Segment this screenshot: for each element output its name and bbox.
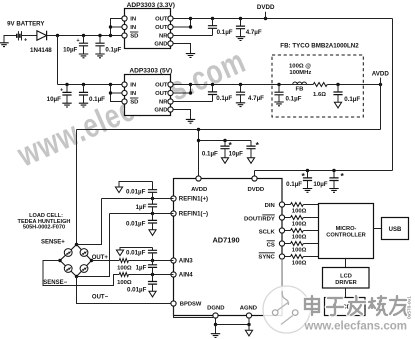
wire U3 to R5 (SCLK) (285, 230, 291, 232)
junction bridge left vertex (58, 259, 61, 262)
capacitor C2 0.1µF (95, 43, 104, 46)
svg-text:AVDD: AVDD (191, 187, 207, 193)
wire diode to U1 SD / input rail (47, 35, 122, 37)
svg-text:SYNC: SYNC (258, 254, 275, 260)
ground (C12, analog) (247, 158, 254, 164)
wire C20 bottom (152, 284, 154, 291)
capacitor C7 0.1µF (NR) (208, 92, 217, 95)
wire input to 5V branch (57, 36, 59, 85)
junction REFIN1(-) caps (151, 212, 154, 215)
resistor R1 100Ω (119, 259, 128, 263)
battery BT1 9V (17, 34, 20, 38)
svg-text:1.6Ω: 1.6Ω (313, 92, 326, 98)
junction U1 OUT tie top (189, 17, 192, 20)
wire to U2 IN2 (111, 92, 122, 94)
svg-text:100Ω: 100Ω (292, 209, 307, 215)
svg-text:www.elecfans.com: www.elecfans.com (304, 321, 407, 333)
wire SENSE- to REFIN1(-) (77, 214, 110, 277)
wire 5V input rail (58, 84, 122, 86)
wire to C2 (99, 36, 101, 44)
wire to C1 (83, 36, 85, 44)
svg-text:0.1µF: 0.1µF (216, 95, 232, 102)
junction C11 (223, 139, 226, 142)
pin U2 GND (168, 107, 173, 112)
junction C5 (65, 83, 68, 86)
pin U3 REFIN1(+) (171, 196, 176, 201)
wire C4 top (240, 19, 242, 27)
capacitor C15 0.01µF (148, 190, 157, 193)
junction REFIN1(+) caps (151, 197, 154, 200)
wire U1 OUT2 tie (173, 19, 190, 28)
svg-text:10µF: 10µF (63, 47, 77, 54)
pin U3 AIN4 (171, 272, 176, 277)
LCD block (325, 298, 366, 316)
wire C5 to ground (66, 95, 68, 103)
svg-text:AIN4: AIN4 (179, 272, 193, 279)
ground (C6) (79, 103, 88, 107)
wire REFIN1(+) line (102, 198, 174, 200)
wire R7 (CS) to microcontroller (303, 243, 318, 245)
wire SENSE+ to REFIN1(+) (77, 199, 102, 245)
svg-text:IN: IN (130, 17, 136, 23)
junction C1 (82, 34, 85, 37)
wire C15 bottom (152, 192, 154, 198)
capacitor C10 0.1µF (333, 92, 342, 95)
junction C2 (98, 34, 101, 37)
ferrite bead FB1 (293, 82, 307, 85)
svg-text:0.1µF: 0.1µF (89, 96, 105, 103)
junction C9 (277, 83, 280, 86)
wire C3 to NR (212, 28, 214, 35)
junction C13 (306, 169, 309, 172)
microcontroller block (319, 204, 374, 259)
svg-text:DIN: DIN (265, 203, 275, 209)
wire U1 NR (173, 35, 212, 37)
wire to C5 (66, 85, 68, 93)
svg-text:0.1µF: 0.1µF (105, 47, 121, 54)
pin U3 SYNC (279, 254, 284, 259)
svg-text:AGND: AGND (240, 305, 257, 311)
svg-text:SD: SD (130, 34, 138, 40)
ground (U1 GND) (186, 54, 195, 58)
pin U1 OUT2 (168, 24, 173, 29)
pin U3 SCLK (279, 228, 284, 233)
svg-text:0.1µF: 0.1µF (344, 96, 360, 103)
svg-text:NR: NR (159, 100, 168, 106)
svg-text:100Ω: 100Ω (292, 222, 307, 228)
regulator U1 ADP3303 (3.3V) (125, 9, 171, 49)
pin U3 AGND (246, 313, 251, 318)
svg-text:100Ω: 100Ω (292, 261, 307, 267)
bridge element top-right (80, 249, 88, 257)
junction C7 (211, 83, 214, 86)
wire C20 top (152, 275, 154, 282)
svg-text:505H-0002-F070: 505H-0002-F070 (23, 225, 65, 231)
wire R4 (DOUT/RDY) to microcontroller (303, 217, 318, 219)
junction AIN4 caps (151, 273, 154, 276)
wire C19 bottom (152, 267, 154, 274)
wire to U1 IN2 (111, 26, 122, 28)
pin U2 NR (168, 99, 173, 104)
resistor R5 (SCLK) 100Ω (291, 229, 304, 233)
ground (DGND) (211, 334, 220, 338)
wire C1 to ground (83, 46, 85, 54)
junction U2 IN tie (109, 83, 112, 86)
capacitor C19 1µF (148, 265, 157, 268)
wire R3 (DIN) to microcontroller (303, 204, 318, 206)
svg-text:BPDSW: BPDSW (180, 301, 202, 307)
wire to battery ground (3, 36, 5, 43)
pin U3 DGND (213, 313, 218, 318)
junction U1 OUT tie (189, 25, 192, 28)
svg-text:AIN3: AIN3 (179, 258, 193, 265)
capacitor C3 0.1µF (NR) (208, 26, 217, 29)
svg-text:GND: GND (154, 108, 167, 114)
wire C13 top (307, 171, 309, 178)
resistor R3 (DIN) 100Ω (291, 203, 304, 207)
ground (C11, analog) (221, 158, 228, 164)
wire C14 to ground (333, 181, 335, 189)
junction U2 OUT tie (189, 91, 192, 94)
junction AGND (247, 323, 250, 326)
wire U2 OUT1 (173, 84, 190, 86)
junction AVDD pin riser (197, 128, 200, 131)
resistor R8 (SYNC) 100Ω (291, 255, 304, 259)
ground (C14) (329, 189, 338, 193)
svg-text:0.1µF: 0.1µF (286, 181, 302, 188)
svg-text:IN: IN (130, 91, 136, 97)
wire C11 top (224, 141, 226, 147)
wire OUT- to R2 (43, 261, 119, 286)
svg-text:ADP3303 (3.3V): ADP3303 (3.3V) (127, 2, 175, 9)
capacitor C11 0.1µF (220, 146, 229, 149)
wire DGND stem (215, 318, 217, 334)
pin U1 SD (122, 33, 127, 38)
resistor R7 (CS) 100Ω (291, 242, 304, 246)
wire battery negative lead (4, 35, 17, 37)
pin U3 CS (279, 241, 284, 246)
junction input rail / 5V branch (56, 34, 59, 37)
wire C18 to ground (120, 248, 153, 251)
svg-text:GND: GND (154, 42, 167, 48)
wire U3 to R8 (SYNC) (285, 256, 291, 258)
junction C6 (82, 83, 85, 86)
ground (C9) (274, 102, 283, 106)
junction AVDD stub (197, 139, 200, 142)
svg-text:0.01µF: 0.01µF (127, 286, 147, 293)
wire C9 to ground (278, 95, 280, 102)
wire AVDD decoupling stub (199, 140, 252, 142)
wire R1 to AIN3 (129, 260, 174, 262)
capacitor C8 4.7µF (236, 92, 245, 95)
wire FB to R6 (307, 84, 314, 86)
pin U3 REFIN1(-) (171, 211, 176, 216)
capacitor C16 1µF (148, 204, 157, 207)
bridge element top-left (64, 249, 72, 257)
svg-text:OUT−: OUT− (92, 295, 109, 301)
wire battery to diode (22, 35, 37, 37)
svg-text:REFIN1(−): REFIN1(−) (179, 211, 208, 218)
ground (AGND, analog) (245, 330, 252, 336)
junction DVDD tick (264, 17, 267, 20)
svg-text:ADP3303 (5V): ADP3303 (5V) (129, 68, 172, 75)
wire DVDD down right edge (392, 19, 394, 171)
svg-text:DVDD: DVDD (247, 187, 264, 193)
svg-text:LCD: LCD (340, 274, 352, 280)
svg-text:OUT: OUT (155, 17, 168, 23)
pin U1 IN2 (122, 24, 127, 29)
wire C3 top (212, 19, 214, 26)
wire DVDD tick (265, 12, 267, 19)
wire U2 GND (173, 110, 190, 120)
svg-text:10µF: 10µF (47, 96, 61, 103)
ground (C17, analog) (149, 230, 156, 236)
wire C2 to ground (99, 46, 101, 54)
pin U3 AVDD (196, 176, 201, 181)
junction C3 (211, 17, 214, 20)
wire U1 IN tie (111, 19, 122, 36)
wire C13 to ground (307, 181, 309, 189)
wire C18 bottom (152, 253, 154, 261)
USB block (382, 218, 409, 240)
junction AIN3 caps (151, 259, 154, 262)
pin U3 BPDSW (171, 301, 176, 306)
svg-text:100Ω: 100Ω (117, 265, 132, 271)
wire C10 top (337, 85, 339, 93)
wire R5 (SCLK) to microcontroller (303, 230, 318, 232)
ground (C4) (236, 37, 245, 41)
wire to C6 (83, 85, 85, 93)
svg-text:100Ω: 100Ω (292, 248, 307, 254)
junction C10 (336, 83, 339, 86)
svg-text:SD: SD (130, 100, 138, 106)
wire C8 to ground (240, 95, 242, 103)
svg-text:AD7190: AD7190 (212, 236, 239, 245)
wire C19 top (152, 261, 154, 265)
wire R2 to AIN4 (129, 274, 174, 276)
svg-text:1N4148: 1N4148 (30, 47, 52, 54)
svg-text:IN: IN (130, 83, 136, 89)
ground (C10, analog) (334, 102, 341, 108)
svg-text:100Ω @: 100Ω @ (289, 63, 311, 69)
ground (battery) (0, 43, 9, 47)
wire AVDD tick (380, 78, 382, 85)
bridge element bottom-left (64, 265, 72, 273)
wire U1 OUT1 (173, 18, 190, 20)
capacitor C14 10µF (329, 178, 338, 181)
wire microcontroller to USB (374, 228, 382, 230)
capacitor C9 0.1µF (274, 92, 283, 95)
wire C7 top (212, 85, 214, 92)
svg-text:100Ω: 100Ω (117, 280, 132, 286)
pin U1 NR (168, 33, 173, 38)
wire LCD driver to LCD (345, 288, 347, 298)
ground (U2 GND) (186, 119, 195, 123)
wire C7 to NR (212, 95, 214, 102)
svg-text:4.7µF: 4.7µF (248, 95, 264, 102)
svg-text:1µF: 1µF (136, 204, 147, 211)
ground (C2) (95, 54, 104, 58)
svg-text:SCLK: SCLK (259, 230, 276, 236)
pin U2 IN1 (122, 82, 127, 87)
svg-text:MICRO-: MICRO- (336, 226, 357, 232)
svg-text:NR: NR (159, 34, 168, 40)
junction U2 IN2 (109, 91, 112, 94)
pin U2 OUT1 (168, 82, 173, 87)
svg-text:OUT: OUT (155, 83, 168, 89)
capacitor C5 10µF (62, 92, 71, 95)
ferrite-bead filter dashed box (272, 55, 363, 117)
load cell bridge diamond (60, 245, 92, 277)
ground (C20, analog) (149, 291, 156, 297)
wire C17 top (152, 214, 154, 221)
wire C6 to ground (83, 95, 85, 103)
ADC U3 AD7190 (174, 179, 283, 316)
junction AVDD node (379, 83, 382, 86)
bridge element bottom-right (80, 265, 88, 273)
capacitor C12 10µF (246, 146, 255, 149)
svg-text:AVDD: AVDD (372, 71, 390, 78)
wire C16 bottom (152, 207, 154, 214)
svg-text:10µF: 10µF (313, 181, 327, 188)
wire U2 OUT2 tie (173, 85, 190, 94)
wire C9 top (278, 85, 280, 93)
wire C11 to ground (224, 149, 226, 158)
wire R6 to AVDD node (327, 84, 380, 86)
svg-text:100MHz: 100MHz (289, 70, 311, 76)
pin U2 SD (122, 99, 127, 104)
svg-text:0.1µF: 0.1µF (286, 95, 302, 102)
svg-text:FB: FB (295, 86, 303, 92)
svg-text:1µF: 1µF (136, 264, 147, 271)
svg-text:9V BATTERY: 9V BATTERY (7, 20, 44, 27)
resistor R6 1.6Ω (313, 83, 327, 87)
wire AVDD rail left part (191, 84, 293, 86)
pin U1 GND (168, 41, 173, 46)
ground (C8) (236, 103, 245, 107)
wire C10 to ground (337, 95, 339, 103)
wire AVDD excitation to bridge (76, 130, 78, 245)
wire DVDD top rail (191, 18, 393, 20)
wire C8 top (240, 85, 242, 93)
watermark: elecfans logo and text (263, 259, 408, 333)
junction C8 (239, 83, 242, 86)
ground (C13) (303, 189, 312, 193)
ground (C18, analog) (116, 250, 123, 256)
capacitor C20 0.01µF (148, 282, 157, 285)
wire C15 top (152, 182, 154, 190)
pin U2 IN2 (122, 90, 127, 95)
pin U1 IN1 (122, 16, 127, 21)
ground (C15, analog) (115, 187, 122, 193)
wire C14 top (333, 171, 335, 178)
wire AVDD down right side (380, 85, 382, 130)
ground (C5) (62, 103, 71, 107)
capacitor C13 0.1µF (303, 178, 312, 181)
svg-text:0.1µF: 0.1µF (217, 29, 233, 36)
wire C16 top (152, 199, 154, 205)
svg-text:0.01µF: 0.01µF (126, 249, 146, 256)
svg-text:CS: CS (267, 242, 275, 248)
capacitor C4 4.7µF (236, 26, 245, 29)
junction C4 (239, 17, 242, 20)
pin U3 DOUT/RDY (279, 215, 284, 220)
ground (C1) (79, 54, 88, 58)
pin U3 DVDD (252, 176, 257, 181)
junction bridge right vertex (90, 259, 93, 262)
wire DGND-AGND tie (216, 324, 250, 326)
svg-text:SENSE+: SENSE+ (41, 240, 65, 246)
diode D1 1N4148 (37, 31, 47, 41)
wire U2 NR (173, 101, 212, 103)
wire OUT+ to R1 (92, 260, 120, 262)
wire REFIN1(-) line (110, 213, 174, 215)
resistor R2 100Ω (119, 273, 128, 277)
wire C17 bottom (152, 223, 154, 230)
svg-text:4.7µF: 4.7µF (246, 29, 262, 36)
wire C18 top (152, 248, 154, 251)
svg-text:DOUT/RDY: DOUT/RDY (244, 217, 275, 223)
svg-text:CONTROLLER: CONTROLLER (326, 233, 366, 239)
svg-text:DRIVER: DRIVER (335, 280, 357, 286)
wire C12 top (250, 141, 252, 147)
wire AVDD riser to U3 (198, 130, 200, 179)
svg-text:100Ω: 100Ω (292, 235, 307, 241)
pin U1 OUT1 (168, 16, 173, 21)
wire AGND stem (248, 318, 250, 330)
capacitor C1 10µF (79, 43, 88, 46)
wire microcontroller to LCD driver (345, 259, 347, 268)
svg-text:DGND: DGND (207, 305, 224, 311)
wire AVDD horizontal line (77, 129, 381, 131)
wire C4 to ground (240, 29, 242, 37)
pin U3 AIN3 (171, 258, 176, 263)
LCD driver block (323, 268, 370, 289)
junction U2 OUT tie top (189, 83, 192, 86)
capacitor C17 0.01µF (148, 220, 157, 223)
junction C14 (332, 169, 335, 172)
junction DGND (214, 323, 217, 326)
wire U3 to R3 (DIN) (285, 204, 291, 206)
wire BPDSW to DGND (174, 306, 214, 317)
wire DVDD riser to U3 (254, 171, 256, 179)
svg-text:10µF: 10µF (229, 150, 243, 157)
pin U2 OUT2 (168, 90, 173, 95)
junction U1 SD tie (109, 34, 112, 37)
wire C15 to ground (119, 182, 153, 188)
junction U1 IN2 (109, 25, 112, 28)
svg-text:+: + (60, 87, 63, 93)
svg-text:0.1µF: 0.1µF (202, 150, 218, 157)
regulator U2 ADP3303 (5V) (125, 75, 171, 116)
svg-text:+: + (76, 38, 79, 44)
resistor R4 (DOUT/RDY) 100Ω (291, 216, 304, 220)
svg-text:FB: TYCO BMB2A1000LN2: FB: TYCO BMB2A1000LN2 (280, 42, 359, 49)
svg-text:DVDD: DVDD (257, 4, 275, 11)
svg-text:OUT: OUT (155, 25, 168, 31)
svg-text:REFIN1(+): REFIN1(+) (179, 196, 208, 203)
wire U2 SD tie (111, 85, 122, 102)
wire DVDD low rail (255, 170, 393, 172)
wire bridge to BPDSW (77, 277, 171, 304)
wire U3 to R4 (DOUT/RDY) (285, 217, 291, 219)
junction bridge top vertex (75, 243, 78, 246)
capacitor C6 0.1µF (79, 92, 88, 95)
wire U3 to R7 (CS) (285, 243, 291, 245)
capacitor C18 0.01µF (148, 250, 157, 253)
pin U3 DIN (279, 202, 284, 207)
wire U1 GND (173, 44, 190, 54)
